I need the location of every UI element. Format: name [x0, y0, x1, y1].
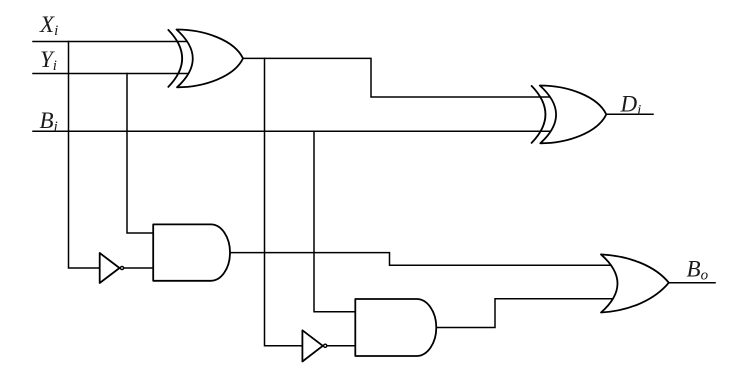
svg-text:Bo: Bo: [687, 257, 709, 284]
svg-text:Bi: Bi: [40, 108, 58, 135]
svg-text:Xi: Xi: [39, 12, 58, 39]
svg-text:Di: Di: [620, 92, 642, 119]
svg-text:Yi: Yi: [40, 47, 57, 74]
